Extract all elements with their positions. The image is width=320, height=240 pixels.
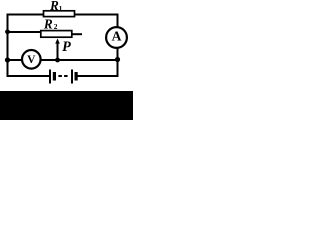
- svg-text:P: P: [62, 39, 71, 55]
- svg-text:R: R: [43, 16, 53, 31]
- svg-text:A: A: [112, 29, 122, 44]
- svg-text:1: 1: [59, 4, 63, 13]
- svg-text:2: 2: [54, 22, 58, 31]
- svg-text:V: V: [27, 54, 36, 66]
- svg-text:R: R: [49, 0, 59, 13]
